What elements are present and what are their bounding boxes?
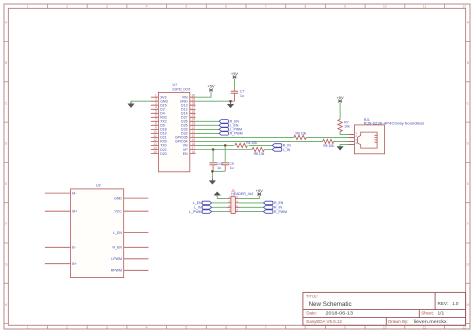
- svg-text:1: 1: [27, 325, 29, 329]
- wire J1 pin1 to ground flag: [217, 195, 226, 198]
- svg-text:RPWM: RPWM: [111, 269, 122, 273]
- svg-text:+5V: +5V: [231, 71, 239, 76]
- net flag R_IN: [272, 144, 282, 148]
- svg-text:11: 11: [423, 5, 427, 9]
- svg-text:1u: 1u: [217, 166, 221, 170]
- ground symbol below C7 node: [227, 101, 233, 108]
- wire RJ9 pin4 to ground: [340, 144, 354, 146]
- capacitor C10: [209, 163, 217, 172]
- svg-text:R6 10k: R6 10k: [296, 132, 307, 136]
- svg-text:HEADER_4x2: HEADER_4x2: [231, 192, 253, 196]
- svg-text:R_EN: R_EN: [274, 201, 284, 205]
- svg-text:Sheet:: Sheet:: [421, 311, 434, 316]
- svg-text:R4 10k: R4 10k: [246, 141, 257, 145]
- svg-text:TITLE:: TITLE:: [306, 294, 318, 299]
- svg-text:L_IN: L_IN: [283, 148, 291, 152]
- wire GPIO35 row to RJ9 pin2: [196, 136, 355, 138]
- svg-text:10k: 10k: [344, 124, 350, 128]
- capacitor C9 leads: [224, 145, 226, 162]
- svg-text:+5V: +5V: [336, 95, 344, 100]
- net flag L_EN: [219, 124, 229, 128]
- wire to net flag L_EN: [196, 124, 220, 126]
- svg-text:E: E: [467, 182, 469, 186]
- header J1 body: [231, 196, 236, 213]
- ground symbol at RJ9: [337, 147, 343, 151]
- wire to net flag L_PWM: [196, 128, 220, 130]
- net flag R_PWM: [219, 132, 229, 136]
- svg-text:1u: 1u: [230, 166, 234, 170]
- svg-text:8: 8: [305, 5, 307, 9]
- svg-text:5: 5: [185, 325, 187, 329]
- RJ1 jack contacts: [375, 135, 378, 142]
- IC U? ESP32_DOIT body: [158, 92, 189, 171]
- RJ1 pins: [348, 134, 354, 144]
- wire to J1 right row 2: [240, 202, 264, 204]
- svg-text:R8 10k: R8 10k: [254, 152, 265, 156]
- svg-text:3: 3: [106, 5, 108, 9]
- svg-text:R_EN: R_EN: [113, 246, 123, 250]
- ground symbol below caps: [209, 179, 215, 185]
- svg-text:12: 12: [462, 325, 466, 329]
- svg-text:2018-06-13: 2018-06-13: [326, 311, 354, 317]
- wire +5V to C7: [234, 79, 236, 90]
- U? right pins 16-30: [190, 97, 196, 153]
- connector RJ1 outer: [354, 125, 384, 154]
- svg-text:15: 15: [153, 150, 157, 154]
- wire GND pin29 to C7/ground: [196, 100, 235, 102]
- svg-text:2: 2: [66, 325, 68, 329]
- resistor R8 10k: [252, 147, 264, 151]
- svg-text:12: 12: [462, 5, 466, 9]
- svg-text:lieven.merckx: lieven.merckx: [414, 319, 448, 325]
- wire to J1 left row 2: [212, 202, 227, 204]
- svg-text:L_EN: L_EN: [193, 201, 202, 205]
- wire +5V to R7: [339, 103, 341, 120]
- net flag R_EN: [264, 201, 274, 205]
- svg-text:ESP32_DOIT: ESP32_DOIT: [173, 87, 192, 91]
- svg-text:1/1: 1/1: [438, 311, 445, 317]
- svg-text:New Schematic: New Schematic: [309, 301, 352, 308]
- svg-text:B: B: [5, 61, 7, 65]
- title block texts: [306, 294, 459, 325]
- svg-text:16: 16: [192, 150, 196, 154]
- wire GPIO34 row to RJ9 pin3: [196, 140, 355, 142]
- svg-text:EasyEDA V5.5.12: EasyEDA V5.5.12: [306, 319, 342, 324]
- svg-text:2: 2: [66, 5, 68, 9]
- junction dot VP/C10: [212, 148, 214, 150]
- svg-text:Drawn By:: Drawn By:: [388, 319, 408, 324]
- svg-text:10: 10: [383, 5, 387, 9]
- svg-text:4: 4: [146, 325, 148, 329]
- svg-text:11: 11: [423, 325, 427, 329]
- U? left pins 1-15: [151, 97, 159, 153]
- junction dot at ground node: [229, 100, 231, 102]
- +5V net flag above R7: [338, 100, 342, 103]
- svg-text:RJ9-623K-4P4CGray boundless: RJ9-623K-4P4CGray boundless: [364, 122, 425, 126]
- svg-text:E: E: [5, 182, 7, 186]
- wire to J1 left row 4: [212, 211, 227, 213]
- title block: [303, 292, 466, 325]
- svg-text:GND: GND: [114, 196, 122, 200]
- svg-text:1: 1: [27, 5, 29, 9]
- resistor R5 10k: [323, 139, 334, 143]
- svg-text:7: 7: [265, 5, 267, 9]
- svg-text:7: 7: [265, 325, 267, 329]
- svg-text:3: 3: [106, 325, 108, 329]
- svg-text:6: 6: [225, 5, 227, 9]
- +5V net flag at J1: [257, 193, 261, 196]
- U2 left pins: [45, 193, 71, 264]
- RJ1 jack outline: [358, 132, 378, 148]
- U2 right pins: [124, 198, 149, 270]
- junction dot VN/C9: [224, 144, 226, 146]
- net flag R_PWM: [264, 210, 274, 214]
- svg-text:6: 6: [225, 325, 227, 329]
- J1 pins: [226, 199, 240, 212]
- svg-text:9: 9: [344, 5, 346, 9]
- wire VIN to +5V: [196, 92, 212, 98]
- resistor R6 10k: [294, 135, 306, 139]
- wire GND pin2 to ground: [131, 100, 151, 102]
- IC U2 body: [71, 189, 124, 278]
- wire R7 to RJ9 pin1: [340, 132, 354, 135]
- svg-text:M+: M+: [72, 210, 77, 214]
- net flag R_EN: [219, 120, 229, 124]
- wire to J1 right row 4: [240, 211, 264, 213]
- svg-text:B: B: [467, 61, 469, 65]
- svg-text:R_PWM: R_PWM: [230, 132, 243, 136]
- net flag R_IN: [264, 206, 274, 210]
- svg-text:R5 10k: R5 10k: [323, 144, 334, 148]
- wire VN row: [196, 144, 273, 146]
- svg-text:U2: U2: [96, 184, 101, 188]
- svg-text:9: 9: [344, 325, 346, 329]
- wire J1 pin2 to +5V: [240, 196, 259, 199]
- capacitor C9: [222, 163, 230, 172]
- svg-text:L_EN: L_EN: [113, 231, 122, 235]
- +5V net flag at VIN: [209, 89, 213, 92]
- wire to J1 left row 3: [212, 206, 227, 208]
- svg-text:4: 4: [146, 5, 148, 9]
- svg-text:F: F: [5, 222, 7, 226]
- ground symbol left of U?: [128, 101, 134, 107]
- wire to J1 right row 3: [240, 206, 264, 208]
- wire cap commons: [212, 171, 225, 178]
- svg-text:L_PWM: L_PWM: [189, 210, 202, 214]
- svg-text:EN: EN: [183, 152, 188, 156]
- svg-text:8: 8: [305, 325, 307, 329]
- svg-text:5: 5: [185, 5, 187, 9]
- svg-text:VCC: VCC: [115, 210, 123, 214]
- resistor R7 10k: [338, 119, 342, 131]
- junction dot caps ground: [211, 170, 213, 172]
- resistor R4 10k: [235, 143, 247, 147]
- svg-text:LPWM: LPWM: [111, 257, 122, 261]
- ground symbol (up) at J1: [214, 192, 220, 195]
- svg-text:10: 10: [383, 325, 387, 329]
- svg-text:R_PWM: R_PWM: [274, 210, 287, 214]
- net flag L_IN: [202, 206, 212, 210]
- svg-text:+5V: +5V: [207, 84, 215, 89]
- wire to net flag R_PWM: [196, 132, 220, 134]
- svg-text:B+: B+: [72, 262, 76, 266]
- net flag L_PWM: [202, 210, 212, 214]
- wire to net flag R_EN: [196, 120, 220, 122]
- svg-text:F: F: [467, 222, 469, 226]
- svg-text:1u: 1u: [240, 94, 244, 98]
- svg-text:+5V: +5V: [256, 188, 264, 193]
- svg-text:Date:: Date:: [306, 311, 317, 316]
- svg-text:D23: D23: [160, 152, 166, 156]
- net flag L_IN: [272, 148, 282, 152]
- net flag L_EN: [202, 201, 212, 205]
- capacitor C10 leads: [212, 150, 214, 162]
- wire VP row: [196, 149, 273, 151]
- capacitor C7: [231, 89, 238, 101]
- +5V net flag above C7: [233, 76, 237, 79]
- net flag L_PWM: [219, 128, 229, 132]
